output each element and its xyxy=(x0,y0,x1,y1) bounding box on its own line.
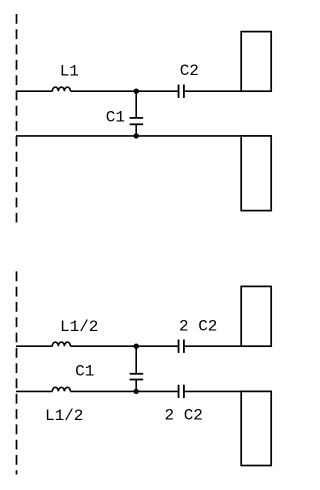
svg-text:C2: C2 xyxy=(180,62,199,80)
wire: bottom-circuit lower line, dashed line to L1/2 xyxy=(16,390,53,392)
svg-text:L1/2: L1/2 xyxy=(60,318,98,336)
capacitor 2 C2 (series, bottom circuit lower) xyxy=(179,385,184,398)
dashed image-plane line (top circuit) xyxy=(16,14,18,223)
wire: C2 to box 1 xyxy=(185,90,272,92)
box 3 (element half, bottom circuit upper) xyxy=(241,286,271,346)
inductor L1/2 (lower) xyxy=(52,387,70,391)
node C (junction dot, bottom circuit upper) xyxy=(134,344,139,349)
box 1 (element half, upper) xyxy=(241,32,271,92)
box 4 (element half, bottom circuit lower) xyxy=(241,391,271,465)
svg-text:C1: C1 xyxy=(75,363,94,381)
dashed image-plane line (bottom circuit) xyxy=(16,271,18,474)
wire: L1/2 to capacitor 2C2 (upper) xyxy=(70,345,177,347)
wire: bottom-circuit upper line, dashed line to L1/2 xyxy=(16,345,53,347)
svg-text:L1/2: L1/2 xyxy=(45,407,83,425)
node B (junction dot, lower) xyxy=(134,133,139,138)
inductor L1/2 (upper) xyxy=(52,342,70,346)
capacitor C2 (series, upper circuit) xyxy=(179,85,184,98)
wire: 2C2 to box 4 xyxy=(185,390,272,392)
svg-text:2 C2: 2 C2 xyxy=(165,407,203,425)
capacitor 2 C2 (series, bottom circuit upper) xyxy=(179,340,184,353)
wire: L1/2 to capacitor 2C2 (lower) xyxy=(70,390,177,392)
node D (junction dot, bottom circuit lower) xyxy=(134,389,139,394)
node A (junction dot, upper) xyxy=(134,89,139,94)
inductor L1 xyxy=(52,87,70,91)
wire: 2C2 to box 3 xyxy=(185,345,272,347)
svg-text:C1: C1 xyxy=(106,108,125,126)
wire: L1 to capacitor C2 xyxy=(70,90,177,92)
wire: top-circuit upper line, dashed line to L1 xyxy=(16,90,53,92)
wire: top-circuit lower line xyxy=(16,135,241,137)
box 2 (element half, lower) xyxy=(241,136,271,211)
svg-text:2 C2: 2 C2 xyxy=(179,318,217,336)
capacitor C1 (shunt, bottom circuit) xyxy=(130,346,144,391)
capacitor C1 (shunt, upper circuit) xyxy=(130,91,144,136)
svg-text:L1: L1 xyxy=(60,62,79,80)
